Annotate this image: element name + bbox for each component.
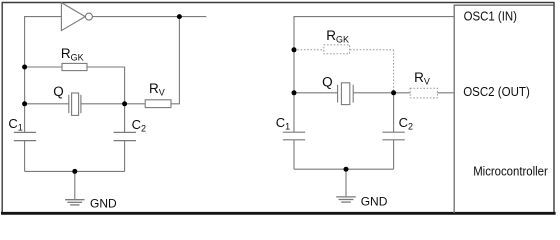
resistor R_V (left) (145, 100, 171, 108)
node: right rail / RGK junction (292, 47, 297, 52)
resistor R_V (right, dotted) (410, 88, 437, 98)
wire: ground tap (right) (345, 169, 347, 196)
node: ground rail junction (72, 169, 77, 174)
crystal Q (right) (338, 83, 354, 105)
dotted RGK branch wires (right) (294, 50, 394, 93)
wire: C2 vertical (124, 104, 126, 133)
capacitor C2 (left) (114, 132, 136, 140)
svg-text:GND: GND (90, 197, 117, 211)
crystal Q (left) (69, 93, 81, 115)
wire: right vertical from output to RV (171, 17, 179, 104)
node: inverter output junction (177, 14, 182, 19)
wire: RGK branch (25, 66, 62, 68)
wire: left input rail (25, 17, 62, 133)
microcontroller box U1 (454, 5, 553, 213)
wire: ground tap (74, 171, 76, 199)
node: right rail / crystal junction (292, 90, 297, 95)
wire: right-circuit left rail (294, 17, 454, 133)
wire: C1 lower vertical (right) (293, 140, 295, 169)
svg-text:Q: Q (322, 75, 333, 90)
ground (left) (65, 200, 84, 205)
svg-text:OSC2 (OUT): OSC2 (OUT) (463, 84, 530, 99)
wire: bottom rail (25, 170, 125, 172)
wire: C2 vertical (right) (393, 93, 395, 132)
capacitor C1 (left) (14, 132, 36, 140)
wire: crystal line to OSC2 (294, 92, 338, 94)
wire: bottom rail (right) (294, 168, 394, 170)
wire: inverter output line (93, 16, 207, 18)
frame bottom thick border (1, 212, 556, 215)
svg-text:Microcontroller: Microcontroller (473, 163, 548, 178)
node: ground rail junction (right) (344, 167, 349, 172)
svg-text:GND: GND (361, 195, 388, 209)
resistor R_GK (right, dotted) (324, 45, 350, 54)
ground (right) (336, 197, 356, 202)
node: left input rail / crystal junction (22, 101, 27, 106)
inverter U2 (NOT gate) (61, 3, 92, 31)
wire: C1 lower vertical (24, 141, 26, 172)
capacitor C2 (right) (382, 132, 404, 140)
resistor R_GK (left) (62, 63, 87, 70)
node: left input rail / RGK junction (22, 65, 27, 70)
wire: crystal line (25, 103, 69, 105)
node: crystal-right / C2 / RV junction (right) (391, 90, 396, 95)
node: crystal-right / C2 / RGK junction (122, 101, 127, 106)
svg-text:Q: Q (53, 84, 64, 99)
capacitor C1 (right) (283, 132, 305, 140)
svg-text:OSC1 (IN): OSC1 (IN) (464, 8, 517, 23)
